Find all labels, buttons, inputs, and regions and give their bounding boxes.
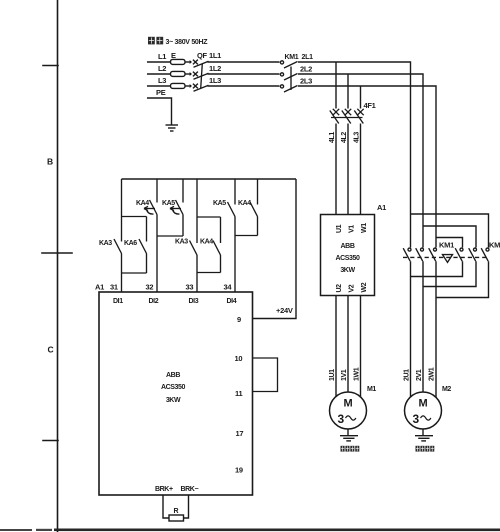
wire 2L2 branch to 4F1 xyxy=(347,74,349,109)
wire 2L1 xyxy=(298,62,411,248)
wire 1U1 xyxy=(335,296,337,397)
wire KM2 output W merge xyxy=(436,261,489,297)
motor M1 xyxy=(330,392,367,429)
svg-text:KA3: KA3 xyxy=(99,240,112,247)
svg-text:2L2: 2L2 xyxy=(300,65,312,74)
svg-text:19: 19 xyxy=(235,466,243,475)
svg-text:KA4: KA4 xyxy=(200,239,213,246)
contactor KM1 main pole 3 xyxy=(280,85,283,88)
svg-text:ABB: ABB xyxy=(166,372,180,379)
svg-text:3KW: 3KW xyxy=(340,267,355,274)
contactor KM1 lower pole 2 xyxy=(421,248,424,251)
breaker 4F1 pole 2 contact xyxy=(345,109,351,115)
svg-text:U1: U1 xyxy=(336,224,343,233)
wire 2L2 xyxy=(298,74,423,248)
svg-text:KM1: KM1 xyxy=(285,54,299,61)
svg-text:31: 31 xyxy=(110,283,118,292)
zone tick top xyxy=(43,65,58,67)
wire 4L2 xyxy=(347,124,349,215)
svg-text:2L3: 2L3 xyxy=(300,77,312,86)
label 行走电机 xyxy=(416,446,435,452)
svg-text:M: M xyxy=(344,398,353,410)
contact KA4 delayed (DI2) xyxy=(156,179,158,203)
contact KA4 (DI3) xyxy=(213,241,221,256)
svg-text:L2: L2 xyxy=(158,64,166,73)
svg-text:3: 3 xyxy=(338,412,345,426)
wire KM1 output U xyxy=(410,261,412,397)
node DI1 merge xyxy=(122,272,147,274)
mechanical interlock triangle xyxy=(443,255,453,263)
contact KA5 (DI4) xyxy=(234,179,236,205)
contactor KM1 lower pole 1 xyxy=(408,248,411,251)
svg-text:10: 10 xyxy=(235,354,243,363)
svg-text:A1: A1 xyxy=(95,283,104,292)
svg-text:2V1: 2V1 xyxy=(416,369,423,381)
svg-text:B: B xyxy=(47,157,53,167)
wire L3 xyxy=(147,85,171,87)
svg-text:1L3: 1L3 xyxy=(209,76,221,85)
wire 1L1 xyxy=(208,61,280,63)
svg-text:2L1: 2L1 xyxy=(302,54,314,61)
contactor KM1 main pole 1 xyxy=(280,61,283,64)
svg-text:M1: M1 xyxy=(367,386,376,393)
svg-text:4L2: 4L2 xyxy=(341,132,348,143)
border frame left vertical line xyxy=(57,0,59,532)
contact KA5 delayed (DI2) xyxy=(182,179,184,203)
wire PE xyxy=(147,98,172,125)
drive A1 right box xyxy=(321,215,375,296)
fuse E phase L1 xyxy=(171,59,186,64)
svg-text:KA5: KA5 xyxy=(213,200,226,207)
svg-text:34: 34 xyxy=(224,283,233,292)
contactor KM1 linkage bar xyxy=(290,67,292,91)
contact KA3 (DI3) xyxy=(190,241,198,256)
svg-text:DI3: DI3 xyxy=(189,298,199,305)
svg-text:+24V: +24V xyxy=(276,306,293,315)
breaker 4F1 pole 1 contact xyxy=(333,109,339,115)
node +24V rail xyxy=(122,178,297,180)
svg-text:DI4: DI4 xyxy=(227,298,237,305)
svg-text:3KW: 3KW xyxy=(166,397,181,404)
label 升降电机 xyxy=(341,446,360,452)
svg-text:DI2: DI2 xyxy=(149,298,159,305)
wire KM1 output V xyxy=(422,261,424,392)
svg-text:1L1: 1L1 xyxy=(209,51,221,60)
svg-text:U2: U2 xyxy=(336,284,343,293)
wire 2L3 xyxy=(298,86,436,248)
wire to terminal 32 xyxy=(156,236,158,292)
wire 4L1 xyxy=(335,124,337,215)
svg-text:BRK+: BRK+ xyxy=(155,486,173,493)
svg-text:11: 11 xyxy=(235,389,242,398)
svg-text:1W1: 1W1 xyxy=(354,367,361,381)
wire crossover 2L3 to KM2 xyxy=(436,238,463,248)
svg-text:DI1: DI1 xyxy=(113,298,123,305)
svg-text:1U1: 1U1 xyxy=(329,369,336,381)
svg-text:A1: A1 xyxy=(377,203,386,212)
wire to terminal 31 xyxy=(121,273,123,292)
wire KM2 output V merge xyxy=(423,261,476,286)
svg-text:W1: W1 xyxy=(361,223,368,233)
breaker QF linkage bar xyxy=(201,64,203,89)
wire 1V1 xyxy=(347,296,349,393)
contact KA4 (DI4) xyxy=(257,179,259,205)
zone tick bottom xyxy=(43,440,58,442)
svg-text:KA4: KA4 xyxy=(238,200,251,207)
node DI3 merge xyxy=(197,272,221,274)
svg-text:E: E xyxy=(171,51,176,60)
wire KM1 output W xyxy=(435,261,437,397)
svg-text:KM1: KM1 xyxy=(439,241,454,250)
wire KM2 output U merge xyxy=(411,261,463,276)
svg-text:BRK−: BRK− xyxy=(181,486,199,493)
svg-text:4L3: 4L3 xyxy=(354,132,361,143)
wire 2L3 branch to 4F1 xyxy=(360,86,362,109)
svg-text:1V1: 1V1 xyxy=(341,369,348,381)
svg-text:3~ 380V 50HZ: 3~ 380V 50HZ xyxy=(166,39,209,46)
svg-text:KA6: KA6 xyxy=(124,240,137,247)
breaker 4F1 pole 3 contact xyxy=(357,109,363,115)
svg-text:ABB: ABB xyxy=(341,243,355,250)
ground under motor M2 xyxy=(415,429,433,441)
svg-text:17: 17 xyxy=(236,429,244,438)
title block top edge bottom strip xyxy=(54,529,500,532)
svg-text:L3: L3 xyxy=(158,76,166,85)
contactor KM2 pole 2 xyxy=(474,248,477,251)
mechanical linkage dashed line xyxy=(403,256,489,258)
wire BRK+ xyxy=(163,495,169,518)
breaker QF pole 3 contact xyxy=(193,84,198,89)
contactor KM1 lower pole 3 xyxy=(434,248,437,251)
svg-text:PE: PE xyxy=(156,88,166,97)
wire jumper pins 10-11 xyxy=(253,358,278,392)
wire L1 xyxy=(147,61,171,63)
svg-text:KA3: KA3 xyxy=(175,239,188,246)
svg-text:KA4: KA4 xyxy=(136,200,149,207)
wire to terminal 34 xyxy=(234,236,236,293)
wire 1L3 xyxy=(208,85,280,87)
wire 1W1 xyxy=(360,296,362,397)
svg-text:L1: L1 xyxy=(158,52,166,61)
breaker QF pole 1 contact xyxy=(193,60,198,65)
PE ground symbol xyxy=(166,125,179,131)
wire BRK- xyxy=(184,495,189,518)
svg-text:KM2: KM2 xyxy=(489,241,500,250)
svg-text:C: C xyxy=(48,345,54,355)
contactor KM2 pole 3 xyxy=(486,248,489,251)
svg-text:4F1: 4F1 xyxy=(364,101,376,110)
svg-text:V2: V2 xyxy=(349,284,356,292)
svg-text:2U1: 2U1 xyxy=(404,369,411,381)
wire 1L2 xyxy=(208,73,280,75)
wire +24V feed down to pin 9 xyxy=(253,179,297,319)
fuse E phase L2 xyxy=(171,71,186,76)
drive A1 left box xyxy=(99,292,253,495)
contact KA3 (DI1) xyxy=(114,239,122,254)
svg-text:2W1: 2W1 xyxy=(429,367,436,381)
svg-text:W2: W2 xyxy=(361,282,368,292)
node DI2 merge xyxy=(157,235,183,237)
breaker 4F1 linkage bar xyxy=(331,117,363,119)
svg-text:M: M xyxy=(419,398,428,410)
svg-text:M2: M2 xyxy=(442,386,451,393)
svg-text:32: 32 xyxy=(146,283,154,292)
breaker QF pole 2 contact xyxy=(193,72,198,77)
svg-text:33: 33 xyxy=(186,283,194,292)
svg-text:4L1: 4L1 xyxy=(329,132,336,143)
resistor R brake xyxy=(169,515,184,521)
motor M2 xyxy=(405,392,442,429)
wire 2L1 branch to 4F1 xyxy=(335,62,337,109)
svg-text:9: 9 xyxy=(237,315,241,324)
svg-text:KA5: KA5 xyxy=(162,200,175,207)
wire crossover 2L2 to KM2 xyxy=(423,226,476,248)
zone tick middle xyxy=(42,252,72,254)
svg-text:ACS350: ACS350 xyxy=(335,255,360,262)
wire crossover 2L1 to KM2 xyxy=(411,214,489,248)
svg-text:1L2: 1L2 xyxy=(209,64,221,73)
fuse E phase L3 xyxy=(171,83,186,88)
supply source label 电源 3~ 380V 50HZ xyxy=(148,37,163,45)
contact KA6 (DI1) xyxy=(139,239,147,254)
wire L2 xyxy=(147,73,171,75)
node DI1 branch split xyxy=(121,179,123,242)
svg-text:R: R xyxy=(174,508,179,515)
svg-text:ACS350: ACS350 xyxy=(161,384,186,391)
node DI3 branch split xyxy=(196,179,198,243)
ground under motor M1 xyxy=(340,429,358,441)
node DI4 merge xyxy=(235,235,258,237)
svg-text:V1: V1 xyxy=(349,225,356,233)
contactor KM2 pole 1 xyxy=(460,248,463,251)
wire to terminal 33 xyxy=(196,273,198,293)
contactor KM1 main pole 2 xyxy=(280,73,283,76)
svg-text:QF: QF xyxy=(197,51,208,60)
wire 4L3 xyxy=(360,124,362,215)
svg-text:3: 3 xyxy=(413,412,420,426)
